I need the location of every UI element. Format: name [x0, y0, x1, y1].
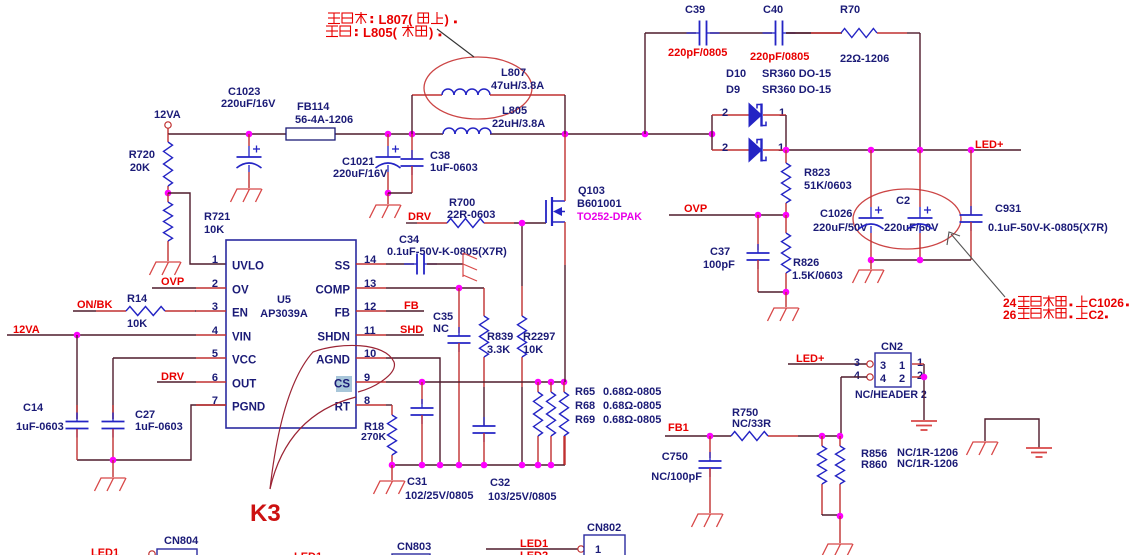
svg-text:C931: C931 [995, 203, 1021, 215]
capacitor C1023 [221, 86, 276, 188]
svg-text:C1023: C1023 [228, 86, 260, 98]
annotation curve K3 [270, 345, 394, 489]
connector CN2 [854, 341, 923, 387]
wire pin5 VCC [113, 357, 226, 359]
svg-text:1: 1 [595, 544, 601, 555]
net label LED1 (bottom middle) [294, 551, 322, 555]
capacitor C32 [473, 417, 557, 503]
svg-text:0.68Ω-0805: 0.68Ω-0805 [603, 386, 661, 398]
capacitor C34 [356, 234, 507, 275]
svg-text:20K: 20K [130, 162, 150, 174]
connector CN803 [392, 541, 431, 555]
svg-text:1: 1 [899, 360, 905, 372]
wire pin6 OUT [157, 381, 226, 383]
node junction CN2 pin2 [921, 374, 928, 381]
net label FB1 [668, 422, 689, 434]
svg-text:1: 1 [212, 254, 218, 266]
node junction R826/C37 [783, 289, 790, 296]
wire snubber right leg [919, 33, 921, 150]
svg-text:R2297: R2297 [523, 331, 555, 343]
svg-text:PGND: PGND [232, 402, 265, 414]
resistor R65 [534, 382, 662, 465]
svg-text:3.3K: 3.3K [487, 344, 510, 356]
svg-text:SS: SS [335, 261, 351, 273]
label D10 [726, 68, 831, 80]
svg-text:R720: R720 [129, 149, 155, 161]
svg-text:56-4A-1206: 56-4A-1206 [295, 114, 353, 126]
ground (chassis) below R826 [768, 292, 800, 321]
net label LED+ (CN2) [796, 353, 824, 365]
wire diode branch [712, 115, 749, 150]
svg-text:C32: C32 [490, 477, 510, 489]
svg-text:AP3039A: AP3039A [260, 308, 308, 320]
connector CN802 [584, 522, 625, 555]
node junction C27 ground [110, 457, 117, 464]
svg-text:K3: K3 [250, 500, 281, 527]
net label SHD (pin11) [356, 324, 424, 336]
annotation ellipse around C2 [853, 189, 961, 249]
wire L807 left leg [411, 95, 413, 134]
annotation arrow to C2 [947, 232, 1005, 297]
svg-text:NC: NC [433, 323, 449, 335]
svg-text:): ) [445, 12, 449, 27]
wire pin2 OV [152, 287, 226, 289]
svg-text:C34: C34 [399, 234, 420, 246]
svg-text:C27: C27 [135, 409, 155, 421]
wire output caps bottom [871, 259, 971, 261]
capacitor C35 (NC) [433, 288, 471, 465]
svg-text:NC/100pF: NC/100pF [651, 471, 702, 483]
wire snubber top rail [645, 32, 842, 34]
svg-text:DRV: DRV [161, 371, 185, 383]
svg-text:C38: C38 [430, 150, 450, 162]
svg-text:ON/BK: ON/BK [77, 299, 113, 311]
resistor R70 [786, 4, 920, 65]
svg-text:C35: C35 [433, 311, 453, 323]
svg-text:OUT: OUT [232, 379, 256, 391]
node junction DRV/R2297 [519, 220, 526, 227]
svg-text:LED1: LED1 [294, 551, 322, 555]
junction dots main rail [246, 131, 716, 138]
wire LED1 to CN802 [486, 546, 584, 552]
svg-text:12VA: 12VA [13, 324, 40, 336]
svg-text:R826: R826 [793, 257, 819, 269]
svg-text:C39: C39 [685, 4, 705, 16]
svg-text:C1021: C1021 [342, 156, 374, 168]
net label LED1 (CN802) [520, 538, 548, 550]
wire CN2 pin4 [841, 374, 873, 436]
svg-text:220pF/0805: 220pF/0805 [750, 51, 809, 63]
svg-text:1: 1 [917, 357, 923, 369]
svg-text:1uF-0603: 1uF-0603 [16, 421, 64, 433]
ground (chassis) below C1023 [231, 189, 263, 202]
svg-text:FB114: FB114 [297, 101, 330, 113]
net label ON/BK [77, 299, 113, 311]
svg-text:R65: R65 [575, 386, 595, 398]
junction dots R856/R860 top [819, 433, 844, 440]
svg-text:VCC: VCC [232, 355, 256, 367]
junction dots CS line [419, 379, 568, 386]
svg-text:NC/33R: NC/33R [732, 418, 771, 430]
svg-text:22uH/3.8A: 22uH/3.8A [492, 118, 545, 130]
net label LED1 (bottom left) [91, 547, 119, 555]
svg-text:C37: C37 [710, 246, 730, 258]
svg-text:L805(: L805( [363, 25, 398, 40]
svg-text:OV: OV [232, 285, 249, 297]
wire FB1 [665, 435, 731, 437]
junction dots caps bottom [868, 257, 924, 264]
capacitor C1026 [813, 150, 884, 260]
capacitor C750 [651, 436, 721, 513]
net label OVP (pin2) [161, 276, 184, 288]
wire LED+ rail [786, 149, 1021, 151]
svg-text:CN804: CN804 [164, 535, 199, 547]
wire pin13 COMP [356, 287, 484, 289]
label D9 [726, 84, 831, 96]
capacitor C2 [884, 150, 939, 260]
resistor R14 [73, 293, 226, 330]
capacitor C27 [102, 358, 183, 460]
svg-text:R14: R14 [127, 293, 148, 305]
ground (chassis) below C14/C27 [95, 460, 127, 491]
ground (chassis) below C1021 [370, 193, 402, 218]
ground (chassis) below R721 [150, 252, 182, 275]
wire pin7 PGND [77, 405, 226, 460]
svg-text:L807: L807 [501, 67, 526, 79]
capacitor C39 [668, 4, 727, 59]
svg-text:R700: R700 [449, 197, 475, 209]
junction dots ground bus [389, 462, 555, 469]
ground (chassis) far right [967, 442, 999, 455]
connector CN804 [149, 535, 199, 555]
ground (chassis) below R860 [822, 544, 854, 555]
svg-text:COMP: COMP [316, 285, 351, 297]
svg-text:2: 2 [722, 107, 728, 119]
svg-text:OVP: OVP [161, 276, 184, 288]
svg-text:4: 4 [854, 370, 861, 382]
svg-text:22R-0603: 22R-0603 [447, 209, 495, 221]
resistor R826 [782, 215, 843, 292]
svg-text:2: 2 [899, 373, 905, 385]
annotation pointer line to L807 [437, 29, 474, 57]
svg-text:2: 2 [722, 142, 728, 154]
svg-text:26: 26 [1003, 308, 1017, 322]
net label LED2 (CN802) [520, 550, 548, 555]
svg-text:LED2: LED2 [520, 550, 548, 555]
svg-text:VIN: VIN [232, 332, 251, 344]
svg-text:10K: 10K [127, 318, 147, 330]
svg-text:47uH/3.8A: 47uH/3.8A [491, 80, 544, 92]
svg-text:D9: D9 [726, 84, 740, 96]
svg-text:C2: C2 [896, 195, 910, 207]
resistor R18 [356, 405, 397, 465]
svg-text:0.68Ω-0805: 0.68Ω-0805 [603, 400, 661, 412]
capacitor C931 [960, 150, 1109, 260]
svg-text:R860: R860 [861, 459, 887, 471]
wire R720 tap to pin1 [168, 193, 226, 264]
svg-text:R839: R839 [487, 331, 513, 343]
svg-text:R68: R68 [575, 400, 595, 412]
wire D10 cathode to LED+ rail [785, 115, 787, 150]
svg-text:UVLO: UVLO [232, 261, 264, 273]
svg-text:EN: EN [232, 308, 248, 320]
svg-text:1.5K/0603: 1.5K/0603 [792, 270, 843, 282]
capacitor C1021 [333, 134, 401, 193]
wire far-right ground pair [985, 419, 1039, 448]
svg-text:OVP: OVP [684, 203, 707, 215]
svg-text:3: 3 [854, 357, 860, 369]
svg-text:220pF/0805: 220pF/0805 [668, 47, 727, 59]
inductor L807 [412, 67, 565, 95]
svg-text:TO252-DPAK: TO252-DPAK [577, 211, 642, 223]
ferrite bead FB114 [286, 101, 353, 140]
wire ground bus [392, 436, 565, 465]
ground (earth) below CN2 [911, 421, 937, 430]
svg-text:NC/1R-1206: NC/1R-1206 [897, 458, 958, 470]
svg-text:220uF/16V: 220uF/16V [333, 168, 388, 180]
svg-text:FB1: FB1 [668, 422, 689, 434]
svg-text:LED1: LED1 [520, 538, 548, 550]
svg-text:270K: 270K [361, 431, 387, 443]
svg-text:1uF-0603: 1uF-0603 [135, 421, 183, 433]
chip U5 pin numbers [212, 254, 377, 407]
wire L807 right leg [564, 95, 566, 134]
svg-text:12VA: 12VA [154, 109, 181, 121]
svg-text:22Ω-1206: 22Ω-1206 [840, 53, 889, 65]
ground (chassis) below C1026 [853, 260, 885, 283]
wire OVP [669, 214, 786, 216]
svg-text:R721: R721 [204, 211, 230, 223]
power port 12VA (top) [154, 109, 181, 134]
svg-text:R823: R823 [804, 167, 830, 179]
svg-text:SR360 DO-15: SR360 DO-15 [762, 84, 831, 96]
svg-text:LED+: LED+ [796, 353, 824, 365]
svg-text:1: 1 [778, 142, 784, 154]
node junction C1021/C38 ground [385, 190, 392, 197]
svg-text:220uF/16V: 220uF/16V [221, 98, 276, 110]
node junction R856/R860 bottom [837, 513, 844, 520]
node junction COMP [456, 285, 463, 292]
svg-text:CN2: CN2 [881, 341, 903, 353]
svg-text:0.1uF-50V-K-0805(X7R): 0.1uF-50V-K-0805(X7R) [988, 222, 1108, 234]
svg-text:CN802: CN802 [587, 522, 621, 534]
diode D9 [712, 139, 786, 162]
svg-text:): ) [429, 25, 433, 40]
transistor Q103 [546, 185, 642, 226]
svg-text:Q103: Q103 [578, 185, 605, 197]
svg-text:100pF: 100pF [703, 259, 735, 271]
svg-text:C40: C40 [763, 4, 783, 16]
net label 12VA (pin4) [13, 324, 40, 336]
svg-text:L805: L805 [502, 105, 527, 117]
resistor R700 [406, 197, 546, 228]
net label FB (pin12) [356, 300, 424, 312]
svg-text:SR360 DO-15: SR360 DO-15 [762, 68, 831, 80]
diode D10 [722, 104, 786, 127]
wire pin9 CS [356, 381, 565, 383]
junction dots LED+ rail [783, 147, 975, 154]
junction dots OVP [755, 212, 790, 219]
net label LED+ (rail) [975, 139, 1003, 151]
op-amp U5 AP3039A body [226, 240, 356, 428]
annotation chinese note L807/L805 [326, 12, 457, 40]
resistor R69 [560, 382, 662, 465]
svg-text:1uF-0603: 1uF-0603 [430, 162, 478, 174]
wire LED+ to CN2 pin3 [788, 361, 873, 367]
annotation chinese note C1026/C2 [1003, 296, 1129, 323]
wire pin4 VIN [7, 334, 226, 336]
svg-text:CS: CS [334, 379, 350, 391]
svg-text:LED1: LED1 [91, 547, 119, 555]
annotation ellipse around L807 [424, 57, 532, 119]
wire snubber left leg [644, 33, 646, 134]
svg-text:0.1uF-50V-K-0805(X7R): 0.1uF-50V-K-0805(X7R) [387, 246, 507, 258]
resistor R839 [480, 288, 514, 426]
svg-text:C2: C2 [1089, 308, 1105, 322]
node junction FB1/C750 [707, 433, 714, 440]
svg-text:3: 3 [880, 360, 886, 372]
svg-text:R70: R70 [840, 4, 860, 16]
net label DRV (pin6) [161, 371, 185, 383]
svg-text:51K/0603: 51K/0603 [804, 180, 852, 192]
label NC/HEADER 2 [855, 389, 927, 401]
resistor R2297 [518, 223, 556, 465]
svg-text:FB: FB [335, 308, 350, 320]
svg-text:102/25V/0805: 102/25V/0805 [405, 490, 474, 502]
svg-text:FB: FB [404, 300, 419, 312]
node junction R720/R721 [165, 190, 172, 197]
svg-text:C1026: C1026 [820, 208, 852, 220]
wire Q103 source [564, 222, 566, 382]
svg-text:C750: C750 [662, 451, 688, 463]
net label DRV (gate) [408, 211, 432, 223]
ground (earth) far right [1026, 448, 1052, 457]
capacitor C37 [703, 215, 786, 292]
svg-text:CN803: CN803 [397, 541, 431, 553]
svg-text:R69: R69 [575, 414, 595, 426]
ground (chassis) below C750 [692, 514, 724, 527]
resistor R68 [547, 382, 662, 465]
ground (chassis) below bus [374, 465, 406, 494]
resistor R823 [782, 150, 852, 215]
svg-text:NC/HEADER 2: NC/HEADER 2 [855, 389, 927, 401]
svg-text:4: 4 [880, 373, 887, 385]
annotation label K3 [250, 500, 281, 527]
svg-text:C14: C14 [23, 402, 44, 414]
net label OVP (right) [684, 203, 707, 215]
node junction 12VA/C14 [74, 332, 81, 339]
svg-text:U5: U5 [277, 294, 291, 306]
capacitor C40 [750, 4, 809, 63]
svg-text:B601001: B601001 [577, 198, 622, 210]
svg-text:C31: C31 [407, 476, 427, 488]
wire to ground R860 [839, 516, 841, 543]
wire CN2 pins 1-2 to ground [912, 364, 924, 420]
capacitor C31 [405, 382, 474, 502]
svg-text:AGND: AGND [316, 355, 350, 367]
svg-text:D10: D10 [726, 68, 746, 80]
svg-text:103/25V/0805: 103/25V/0805 [488, 491, 557, 503]
chip U5 pin names [232, 261, 352, 414]
capacitor C14 [16, 335, 89, 460]
resistor R720 [129, 134, 173, 193]
wire main 12V rail [168, 133, 712, 135]
resistor R721 [164, 193, 231, 252]
resistor R856 [818, 436, 959, 515]
svg-text:SHDN: SHDN [317, 332, 350, 344]
resistor R750 [731, 407, 841, 441]
svg-text:DRV: DRV [408, 211, 432, 223]
svg-text:LED+: LED+ [975, 139, 1003, 151]
svg-text:SHD: SHD [400, 324, 423, 336]
wire pin10 AGND [356, 358, 440, 465]
wire Q103 drain [564, 134, 566, 201]
inductor L805 [443, 105, 545, 134]
no-ERC marker (red hatch) at C34 [463, 253, 477, 281]
capacitor C38 [388, 134, 478, 193]
svg-text:0.68Ω-0805: 0.68Ω-0805 [603, 414, 661, 426]
svg-text:10K: 10K [204, 224, 224, 236]
resistor R860 [836, 436, 959, 516]
svg-text:1: 1 [779, 107, 785, 119]
